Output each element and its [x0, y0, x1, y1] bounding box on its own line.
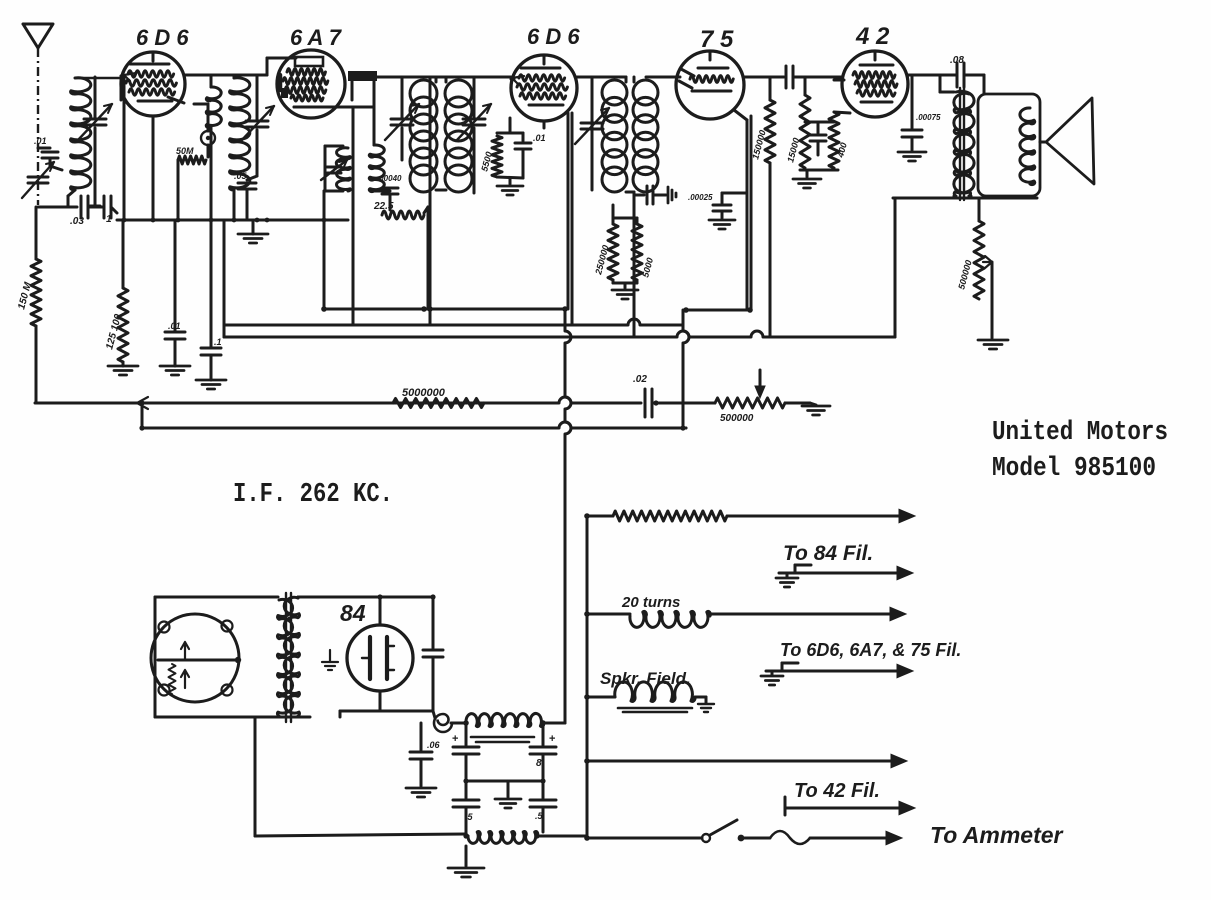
svg-text:.01: .01 — [168, 321, 181, 331]
svg-text:To Ammeter: To Ammeter — [930, 822, 1064, 848]
svg-text:To 6D6, 6A7, & 75 Fil.: To 6D6, 6A7, & 75 Fil. — [780, 640, 961, 660]
svg-text:1: 1 — [106, 214, 112, 225]
svg-text:50M: 50M — [176, 146, 194, 156]
svg-text:+: + — [549, 733, 555, 745]
svg-text:7 5: 7 5 — [700, 26, 734, 53]
svg-text:20 turns: 20 turns — [621, 594, 680, 611]
svg-text:6 A 7: 6 A 7 — [290, 25, 343, 50]
svg-text:Model 985100: Model 985100 — [992, 454, 1156, 484]
svg-text:84: 84 — [340, 600, 366, 626]
svg-text:.1: .1 — [214, 337, 222, 347]
svg-text:.05: .05 — [234, 171, 248, 181]
svg-text:.00040: .00040 — [377, 174, 402, 183]
svg-text:.00075: .00075 — [916, 113, 941, 122]
svg-text:6 D 6: 6 D 6 — [136, 25, 189, 50]
svg-text:500000: 500000 — [720, 413, 754, 424]
svg-text:8: 8 — [536, 758, 542, 769]
svg-text:5000000: 5000000 — [402, 387, 446, 399]
svg-text:.01: .01 — [533, 133, 546, 143]
svg-text:.03: .03 — [70, 216, 84, 227]
svg-text:To 84 Fil.: To 84 Fil. — [783, 542, 873, 565]
svg-text:United Motors: United Motors — [992, 418, 1168, 448]
svg-text:.00025: .00025 — [688, 193, 713, 202]
svg-text:.06: .06 — [427, 740, 441, 750]
svg-text:.02: .02 — [633, 374, 647, 385]
svg-text:.01: .01 — [34, 136, 47, 146]
svg-text:+: + — [452, 733, 458, 745]
svg-text:6 D 6: 6 D 6 — [527, 24, 580, 49]
svg-text:I.F. 262 KC.: I.F. 262 KC. — [233, 480, 393, 510]
svg-text:4 2: 4 2 — [855, 23, 890, 50]
svg-text:To 42 Fil.: To 42 Fil. — [794, 780, 880, 802]
